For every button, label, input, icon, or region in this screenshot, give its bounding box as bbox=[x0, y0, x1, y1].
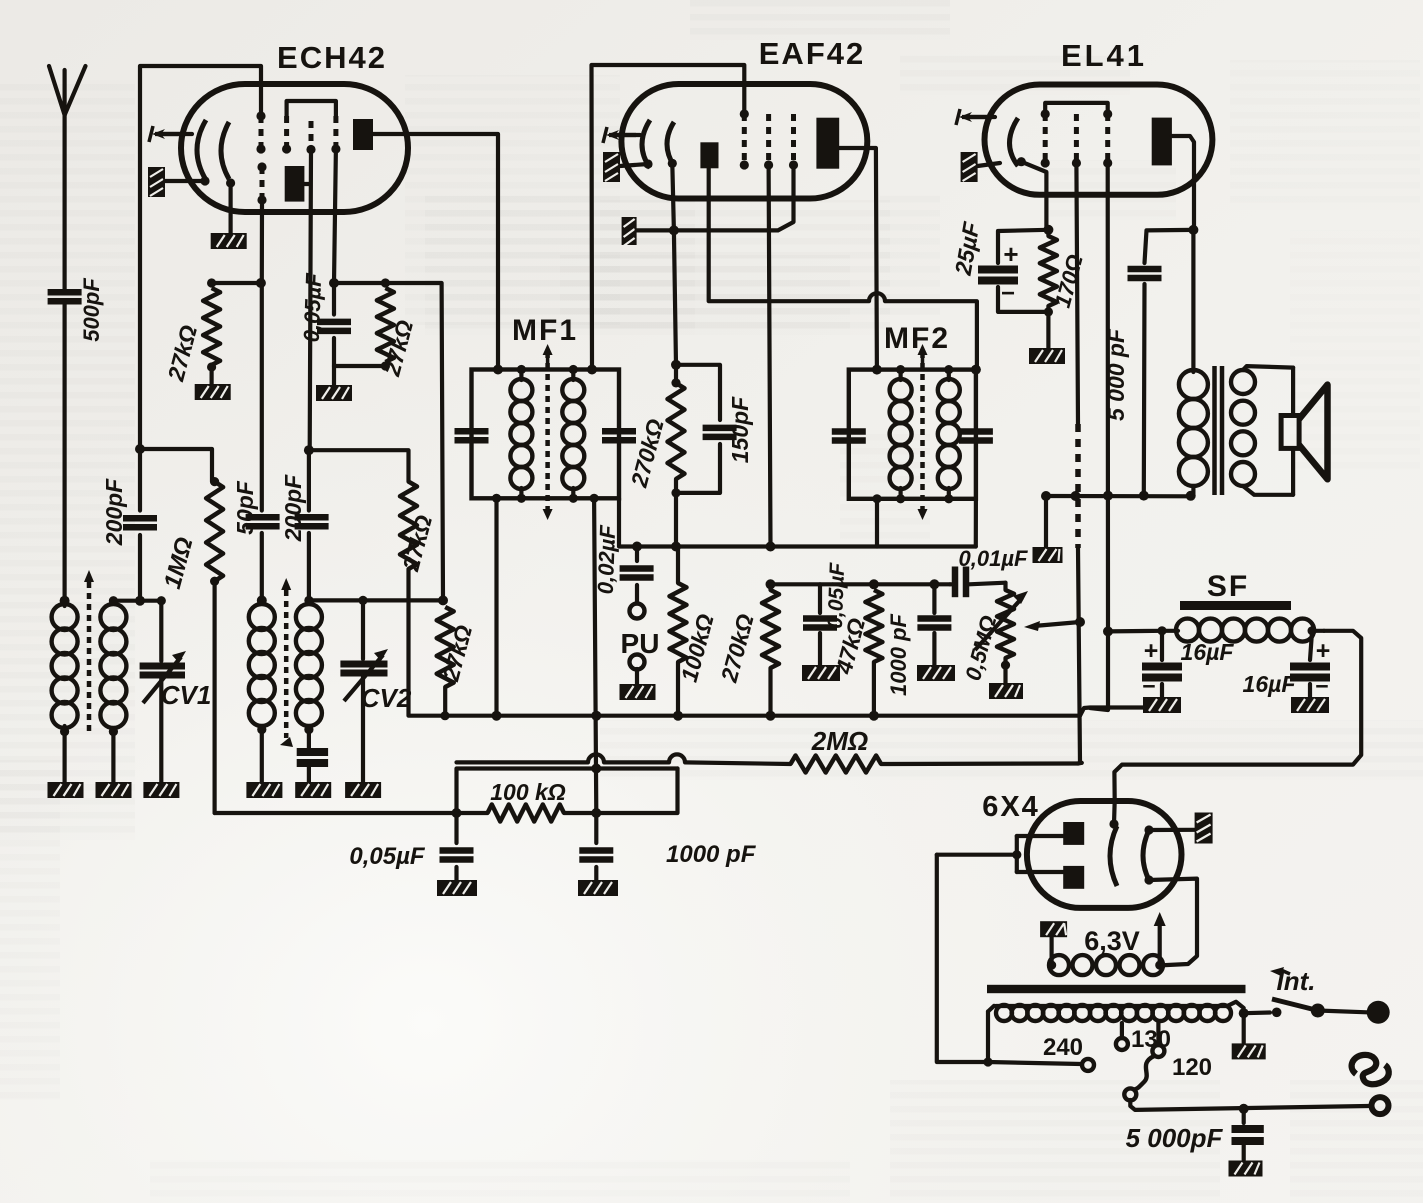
wire tuned2 top bbox=[309, 598, 443, 602]
ECH42 chassis left bbox=[148, 167, 205, 197]
wire avc bus right bbox=[596, 769, 677, 814]
resistor 270kΩ-2 bbox=[716, 584, 779, 715]
svg-text:6X4: 6X4 bbox=[982, 791, 1040, 823]
ground PU bbox=[620, 669, 656, 700]
ground screen bbox=[316, 366, 352, 401]
node bus MF1a bbox=[492, 711, 502, 721]
ECH42 triode grid column bbox=[257, 162, 266, 204]
node 200pF-2 top bbox=[304, 445, 314, 455]
svg-text:−: − bbox=[1001, 280, 1015, 307]
tube EAF42 envelope bbox=[621, 36, 867, 199]
capacitor osc padder bbox=[297, 730, 328, 782]
capacitor 16µF-1 bbox=[1142, 631, 1234, 699]
svg-text:+: + bbox=[1144, 637, 1159, 665]
node osc grid junction bbox=[256, 278, 266, 288]
capacitor 16µF-2 bbox=[1243, 631, 1331, 699]
terminal PU 2 bbox=[630, 655, 645, 670]
resistor 27kΩ screen bbox=[334, 278, 418, 379]
ground osc padder bbox=[295, 782, 331, 798]
svg-text:SF: SF bbox=[1207, 570, 1249, 603]
resistor 2MΩ bbox=[791, 726, 882, 773]
label CV2 bbox=[361, 683, 412, 713]
EAF42 cathode bbox=[642, 120, 677, 169]
wire MF1 det out bbox=[619, 498, 976, 546]
EAF42 grid cap arrow bbox=[603, 127, 640, 143]
capacitor 5000pF mains bbox=[1126, 1109, 1264, 1160]
node bus MF1b bbox=[591, 711, 601, 721]
terminal 130 bbox=[1116, 1023, 1171, 1053]
wire cathode chain bbox=[674, 365, 678, 547]
resistor 27kΩ first bbox=[162, 278, 261, 384]
wire tuned1 top bbox=[113, 599, 161, 603]
resistor 170Ω bbox=[1040, 230, 1088, 317]
capacitor 500pF bbox=[48, 278, 104, 342]
capacitor 50pF bbox=[232, 283, 280, 600]
cord curl bbox=[1352, 1055, 1389, 1084]
resistor 47kΩ bbox=[830, 590, 882, 716]
label PU bbox=[621, 628, 660, 659]
EAF42 chassis left bbox=[603, 152, 648, 182]
core MF1 dashed bbox=[543, 344, 553, 520]
ground 1000pF det bbox=[917, 665, 955, 681]
wire bank right bbox=[874, 582, 950, 586]
svg-text:6,3V: 6,3V bbox=[1084, 926, 1140, 956]
wire 6X4 plate feed bbox=[937, 836, 1063, 872]
svg-text:16µF: 16µF bbox=[1243, 671, 1297, 697]
EAF42 grid g3 column bbox=[789, 114, 798, 170]
svg-text:−: − bbox=[1315, 673, 1328, 699]
wire triode grid down bbox=[260, 200, 264, 283]
EAF42 grid g2 column bbox=[764, 114, 773, 170]
ground mains bbox=[1232, 1043, 1266, 1059]
node PU stub bbox=[632, 542, 642, 552]
svg-text:16µF: 16µF bbox=[1181, 639, 1235, 665]
ground 27k first bbox=[195, 384, 231, 400]
ground 1000pF avc bbox=[578, 880, 618, 896]
wire 1M down bbox=[213, 581, 217, 813]
shield EL41 g1 bbox=[1075, 424, 1081, 548]
capacitor 0.02µF bbox=[593, 524, 654, 603]
wire EAF42 cathode down bbox=[672, 163, 676, 364]
svg-text:50pF: 50pF bbox=[232, 480, 258, 535]
ground osc grid coil bbox=[246, 730, 282, 798]
ECH42 grid g3 column bbox=[306, 121, 315, 154]
transformer mains winding bbox=[988, 1002, 1244, 1021]
wire grid top rail bbox=[140, 66, 261, 449]
resistor 100kΩ det bbox=[670, 547, 719, 716]
wire heater right bbox=[1149, 879, 1197, 966]
node screen junction bbox=[329, 278, 339, 288]
6X4 heater arc bbox=[1143, 825, 1154, 884]
ECH42 grid g4 column bbox=[331, 116, 340, 154]
wire EAF42 diode out bbox=[709, 168, 977, 369]
label heater arrow bbox=[1154, 912, 1166, 963]
6X4 chassis right bbox=[1149, 813, 1213, 844]
node rail tuned1 bbox=[135, 596, 145, 606]
ground ant secondary bbox=[96, 732, 132, 798]
ground 16µF-1 bbox=[1143, 697, 1181, 713]
ground CV1 bbox=[143, 782, 179, 798]
resistor 100kΩ avc bbox=[452, 779, 597, 822]
wire B+ row bbox=[1046, 494, 1193, 498]
wire EAF42 anode out bbox=[839, 148, 877, 370]
wire grid return right bbox=[881, 761, 1078, 766]
capacitor 25µF bbox=[950, 219, 1049, 312]
svg-text:−: − bbox=[1142, 673, 1155, 699]
svg-text:CV2: CV2 bbox=[361, 683, 412, 713]
ground EAF42 cathode bbox=[622, 217, 674, 246]
capacitor 150pF bbox=[676, 396, 753, 493]
wire EL41 g2 low bbox=[1090, 631, 1108, 710]
terminal PU 1 bbox=[630, 604, 645, 619]
svg-text:120: 120 bbox=[1172, 1054, 1212, 1081]
node MF2 anode in bbox=[872, 365, 882, 375]
wire chassis bus bbox=[443, 708, 1146, 716]
capacitor MF2 primary bbox=[832, 432, 866, 441]
ground heater bbox=[1040, 921, 1067, 965]
ECH42 triode anode bbox=[285, 166, 310, 202]
svg-text:EL41: EL41 bbox=[1061, 38, 1147, 73]
wire winding right gnd bbox=[1242, 1013, 1246, 1043]
ground 16µF-2 bbox=[1291, 697, 1329, 713]
node det cathode line bbox=[671, 542, 681, 552]
EL41 anode bbox=[1152, 118, 1172, 166]
capacitor 0.05µF screen bbox=[299, 272, 351, 366]
label Int bbox=[1270, 966, 1316, 996]
heater winding 6.3V bbox=[1047, 926, 1164, 975]
ground CV2 bbox=[345, 782, 381, 798]
svg-text:+: + bbox=[1316, 637, 1331, 665]
wire antenna rail bbox=[62, 304, 66, 601]
capacitor 200pF-2 bbox=[280, 450, 329, 600]
core MF2 dashed bbox=[918, 344, 928, 520]
node g2 avc bbox=[766, 542, 776, 552]
svg-text:1000 pF: 1000 pF bbox=[666, 841, 757, 868]
coil MF1 secondary bbox=[562, 365, 584, 503]
wire anode to OT bbox=[1191, 230, 1195, 372]
core antenna dashed bbox=[84, 570, 94, 731]
ECH42 grid cap arrow bbox=[149, 126, 192, 142]
label MF1 bbox=[512, 314, 578, 369]
choke SF bbox=[1103, 619, 1324, 642]
wire MF2 sec gnd bbox=[974, 499, 978, 547]
node avc 1000pF bbox=[591, 808, 601, 818]
terminal plug low bbox=[1372, 1097, 1389, 1114]
svg-text:+: + bbox=[1003, 239, 1018, 269]
capacitor MF1 primary bbox=[455, 431, 489, 440]
wire grid return bbox=[457, 754, 791, 764]
svg-text:1000 pF: 1000 pF bbox=[886, 613, 911, 695]
capacitor MF2 secondary bbox=[959, 432, 993, 441]
wire avc bus bbox=[215, 811, 457, 815]
capacitor MF1 secondary bbox=[602, 431, 636, 440]
wire 1M link bbox=[140, 449, 212, 482]
6X4 cathode bbox=[1109, 801, 1118, 886]
ECH42 cathode bbox=[197, 120, 235, 188]
tube ECH42 envelope bbox=[181, 40, 408, 212]
EAF42 grid g1 column bbox=[740, 109, 749, 169]
tube EL41 envelope bbox=[985, 38, 1213, 195]
svg-text:EAF42: EAF42 bbox=[759, 36, 865, 71]
node anode junction bbox=[1188, 225, 1198, 235]
ground ECH42 cathode bbox=[211, 233, 247, 249]
wire MF2 avc down bbox=[872, 494, 881, 546]
wire det bank bbox=[771, 582, 874, 586]
switch Int bbox=[1244, 999, 1390, 1024]
terminal 240 bbox=[988, 1034, 1094, 1071]
transformer MF1 box bbox=[472, 370, 620, 499]
node EAF42 cath gnd bbox=[669, 225, 679, 235]
wire volume takeoff bbox=[1024, 621, 1080, 631]
capacitor 0.05µF avc bbox=[349, 813, 473, 880]
resistor 1MΩ bbox=[159, 477, 223, 592]
node 47k top bbox=[869, 579, 879, 589]
svg-text:200pF: 200pF bbox=[101, 478, 127, 546]
wire ECH42 cathode down bbox=[229, 183, 233, 233]
wire EL41 cathode down bbox=[1021, 162, 1046, 230]
coil MF2 primary bbox=[890, 365, 912, 503]
node MF2 diode out bbox=[971, 365, 981, 375]
capacitor 1000pF det bbox=[886, 579, 951, 696]
svg-text:2MΩ: 2MΩ bbox=[811, 726, 868, 756]
tube 6X4 envelope bbox=[982, 791, 1181, 908]
svg-text:200pF: 200pF bbox=[280, 474, 306, 542]
EAF42 anode bbox=[816, 118, 839, 169]
resistor 27kΩ osc-anode bbox=[437, 607, 477, 720]
EL41 cathode bbox=[1010, 118, 1026, 166]
variable capacitor CV2 bbox=[340, 596, 388, 782]
node osc coil top bbox=[257, 595, 267, 605]
svg-text:5 000 pF: 5 000 pF bbox=[1103, 328, 1129, 421]
EL41 grid g3 column bbox=[1103, 114, 1112, 168]
shield SF bar bbox=[1180, 601, 1291, 610]
node det bank top bbox=[766, 579, 776, 589]
wire EL41 g2 down bbox=[1106, 163, 1111, 631]
ground ant primary bbox=[48, 732, 84, 798]
node EL41 cath bias bbox=[1043, 225, 1053, 235]
svg-text:150pF: 150pF bbox=[727, 396, 753, 463]
svg-text:0,05µF: 0,05µF bbox=[299, 272, 326, 342]
wire MF1 to EAF42 grid bbox=[592, 65, 745, 370]
ECH42 screen bracket bbox=[287, 101, 336, 116]
wire MF1 pri bottom down bbox=[492, 494, 501, 716]
wire MF1 sec bottom down bbox=[590, 494, 599, 813]
resistor 270kΩ diode bbox=[626, 378, 685, 497]
node bus 47k bbox=[869, 711, 879, 721]
ground 0.05µF-2 bbox=[802, 665, 840, 681]
wire osc fb bbox=[309, 450, 409, 481]
svg-text:0,01µF: 0,01µF bbox=[959, 546, 1028, 571]
ground 0.05µF avc bbox=[437, 880, 477, 896]
wire osc-fb down bbox=[409, 569, 444, 716]
wire g3 anode line down bbox=[310, 150, 311, 451]
ground 5000pF mains bbox=[1229, 1161, 1263, 1177]
EL41 grid cap arrow bbox=[956, 109, 995, 125]
node mains right bbox=[1239, 1008, 1249, 1018]
antenna bbox=[49, 66, 86, 290]
ECH42 grid g2 column bbox=[282, 116, 291, 154]
node ant coil top bbox=[60, 596, 70, 606]
node cath 150p top bbox=[671, 360, 681, 370]
node g1 takeoff bbox=[1075, 617, 1085, 627]
variable capacitor CV1 bbox=[140, 596, 186, 782]
wire EL41 g1 lower bbox=[1078, 548, 1082, 764]
coil MF1 primary bbox=[510, 365, 532, 503]
ground 170Ω bbox=[1029, 312, 1065, 364]
capacitor 0.05µF-2 bbox=[803, 561, 849, 665]
svg-text:MF1: MF1 bbox=[512, 314, 578, 347]
EAF42 diode plate bbox=[700, 142, 718, 168]
resistor 27kΩ osc-fb bbox=[397, 482, 437, 575]
label CV1 bbox=[161, 680, 212, 710]
wire screen to osc rail bbox=[385, 283, 443, 600]
ECH42 hexode anode bbox=[353, 119, 373, 150]
wire avc bracket bbox=[457, 769, 678, 814]
wire mains low bbox=[1130, 1100, 1368, 1110]
capacitor 200pF-1 bbox=[101, 449, 157, 601]
svg-text:5 000pF: 5 000pF bbox=[1126, 1123, 1224, 1153]
label MF2 bbox=[884, 322, 950, 369]
wire 150p top bbox=[676, 365, 720, 420]
core osc dashed bbox=[280, 578, 293, 747]
node MF1 anode in bbox=[493, 365, 503, 375]
node 200pF-1 top bbox=[135, 444, 145, 454]
node bracket mid bbox=[591, 764, 601, 774]
EL41 grid g1 column bbox=[1041, 114, 1050, 168]
wire EAF42 g2 down bbox=[769, 165, 771, 547]
wire EL41 anode out bbox=[1172, 136, 1194, 230]
node bus 100k bbox=[673, 711, 683, 721]
node MF1 g out bbox=[587, 365, 597, 375]
coil osc anode bbox=[296, 596, 322, 734]
node bus 270k bbox=[766, 711, 776, 721]
transformer shield bar bbox=[987, 985, 1246, 993]
EL41 chassis left bbox=[961, 152, 1000, 182]
svg-text:CV1: CV1 bbox=[161, 680, 212, 710]
transformer MF2 box bbox=[849, 370, 976, 499]
transformer OT core bbox=[1215, 366, 1223, 495]
coil antenna secondary bbox=[100, 596, 126, 736]
coil osc grid bbox=[249, 604, 275, 734]
wire g4 screen down bbox=[334, 149, 336, 283]
svg-text:500pF: 500pF bbox=[79, 278, 104, 342]
svg-text:0,02µF: 0,02µF bbox=[593, 524, 620, 594]
wire hexode anode to MF1 bbox=[373, 134, 498, 370]
coil antenna primary bbox=[52, 601, 78, 737]
ECH42 grid g1 column bbox=[256, 111, 265, 153]
wire plate to winding bbox=[937, 855, 993, 1067]
capacitor 1000pF avc bbox=[579, 813, 756, 880]
label SF bbox=[1207, 570, 1249, 603]
ground B+ hatch bbox=[1033, 496, 1063, 563]
node 5000pF low bbox=[1239, 1104, 1249, 1114]
potentiometer 0.5MΩ bbox=[960, 583, 1028, 684]
wire EL41 g1 down bbox=[1076, 163, 1078, 424]
EL41 grid g2 column bbox=[1072, 114, 1081, 168]
coil MF2 secondary bbox=[938, 365, 960, 503]
capacitor 0.01µF bbox=[950, 546, 1028, 597]
transformer OT secondary bbox=[1231, 366, 1293, 495]
wire B+ loop bbox=[1114, 631, 1361, 801]
EL41 grid bracket bbox=[1041, 103, 1113, 119]
svg-text:100 kΩ: 100 kΩ bbox=[490, 779, 566, 805]
terminal 120 bbox=[1124, 1023, 1212, 1100]
wire EAF42 g3 down bbox=[674, 165, 794, 230]
node B+ row bbox=[1041, 491, 1196, 501]
speaker bbox=[1281, 368, 1327, 495]
svg-text:240: 240 bbox=[1043, 1034, 1083, 1061]
svg-text:ECH42: ECH42 bbox=[277, 40, 387, 75]
6X4 plates bbox=[1063, 822, 1084, 889]
ground 0.5MΩ bbox=[989, 665, 1023, 699]
svg-text:MF2: MF2 bbox=[884, 322, 950, 355]
capacitor 5000pF anode bbox=[1103, 230, 1193, 495]
node osc rail CV2 bbox=[438, 595, 448, 605]
svg-text:0,05µF: 0,05µF bbox=[349, 843, 426, 870]
transformer OT primary bbox=[1179, 370, 1208, 496]
